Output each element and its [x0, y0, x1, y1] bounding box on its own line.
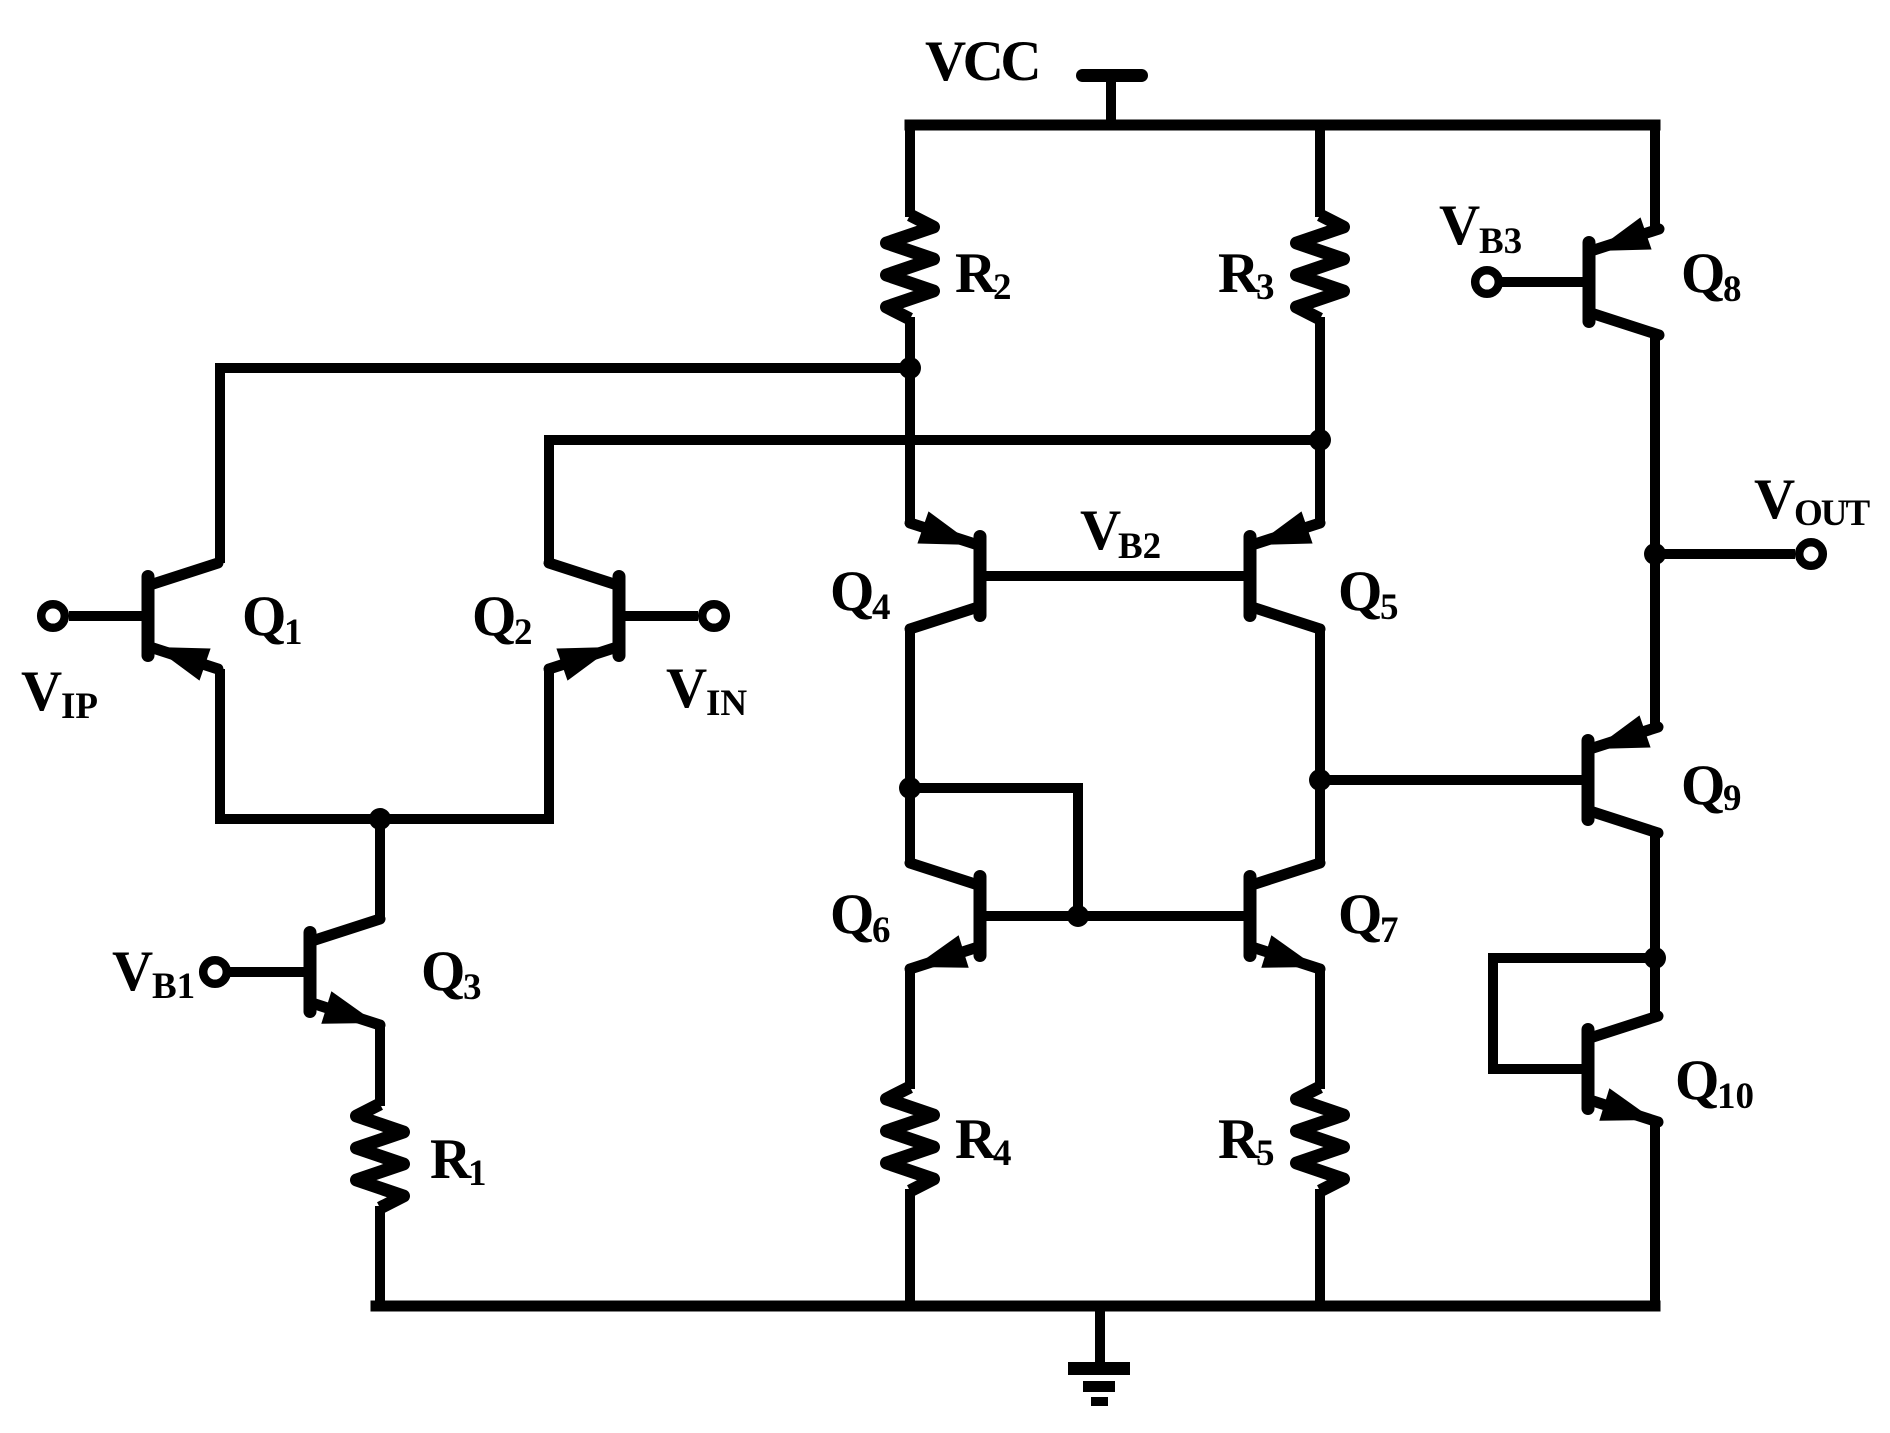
svg-text:B3: B3	[1479, 221, 1522, 262]
wire Q6 emitter to R4	[905, 969, 915, 1089]
svg-text:3: 3	[1256, 267, 1275, 308]
wire Q9 collector to node H	[1650, 833, 1660, 958]
wire R1 to ground rail	[375, 1206, 385, 1312]
svg-text:IP: IP	[61, 686, 98, 727]
wire VCC rail to Q8 emitter	[1650, 125, 1660, 229]
node F (Q5-Q7-Q9)	[1309, 769, 1331, 791]
wire node A to Q4 emitter	[905, 368, 915, 523]
svg-text:1: 1	[284, 612, 303, 653]
input terminal VIN	[702, 604, 726, 628]
svg-text:OUT: OUT	[1794, 493, 1871, 534]
resistor R1	[357, 1104, 404, 1208]
wire common emitter tail	[215, 814, 554, 824]
wire Q10 emitter to ground rail	[1650, 1122, 1660, 1312]
VCC power rail (top)	[905, 120, 1661, 131]
svg-text:Q: Q	[1338, 560, 1382, 623]
wire Q7 collector riser	[1315, 780, 1325, 863]
wire R3 to node B	[1315, 317, 1325, 435]
resistor R5	[1297, 1087, 1344, 1191]
transistor Q3 (NPN)	[304, 926, 317, 1018]
svg-text:Q: Q	[1681, 754, 1725, 817]
wire to VOUT terminal	[1655, 549, 1795, 559]
wire node D to base drop	[910, 783, 1083, 793]
wire VCC rail to R3	[1315, 125, 1325, 217]
svg-text:Q: Q	[472, 585, 516, 648]
svg-text:3: 3	[463, 967, 482, 1008]
resistor R3	[1297, 215, 1344, 319]
wire Q10 base loop top	[1488, 953, 1655, 963]
transistor Q7 (NPN)	[1244, 870, 1257, 962]
terminal VB3	[1475, 270, 1499, 294]
transistor Q1 (PNP)	[142, 570, 155, 662]
svg-text:Q: Q	[1338, 883, 1382, 946]
node D (Q4-Q6)	[899, 777, 921, 799]
node B (R3 bottom)	[1309, 429, 1331, 451]
svg-text:8: 8	[1723, 269, 1742, 310]
svg-text:1: 1	[468, 1153, 487, 1194]
svg-text:B1: B1	[152, 966, 195, 1007]
transistor Q10 (NPN)	[1582, 1023, 1595, 1115]
transistor Q5 (PNP)	[1244, 530, 1257, 622]
wire R2 to node A	[905, 317, 915, 373]
svg-text:V: V	[112, 940, 153, 1003]
svg-text:R: R	[430, 1128, 472, 1191]
wire Q8 collector to VOUT node	[1650, 335, 1660, 554]
wire Q5 collector to node F	[1315, 629, 1325, 780]
wire Q3 emitter to R1	[375, 1025, 385, 1106]
svg-text:7: 7	[1380, 910, 1399, 951]
VCC supply symbol	[1076, 69, 1148, 82]
svg-text:5: 5	[1256, 1133, 1275, 1174]
wire R4 to ground rail	[905, 1189, 915, 1312]
node G (VOUT)	[1644, 543, 1666, 565]
wire Q10 base loop bottom	[1488, 1064, 1582, 1074]
svg-text:2: 2	[993, 267, 1012, 308]
ground symbol	[1095, 1306, 1105, 1362]
wire Q7 emitter to R5	[1315, 969, 1325, 1089]
wire node B to Q2 collector	[544, 435, 1320, 445]
input terminal VIP	[41, 604, 65, 628]
wire Q10 base loop left	[1488, 958, 1498, 1074]
resistor R2	[887, 215, 934, 319]
svg-text:VCC: VCC	[925, 30, 1038, 93]
wire R5 to ground rail	[1315, 1189, 1325, 1312]
wire base drop to node E	[1073, 788, 1083, 916]
transistor Q8 (PNP)	[1583, 236, 1596, 328]
ground rail (bottom)	[371, 1301, 1661, 1312]
svg-text:V: V	[21, 660, 62, 723]
svg-text:R: R	[1218, 1108, 1260, 1171]
svg-text:V: V	[1439, 194, 1480, 257]
svg-text:9: 9	[1723, 778, 1742, 819]
wire node B to Q5 emitter	[1315, 440, 1325, 523]
output terminal VOUT	[1799, 542, 1823, 566]
node H (Q9-Q10)	[1644, 947, 1666, 969]
node C (emitter tail)	[369, 808, 391, 830]
wire node A to Q1 collector	[215, 363, 910, 373]
svg-text:6: 6	[872, 910, 891, 951]
wire VOUT node to Q9 emitter	[1650, 554, 1660, 727]
svg-text:4: 4	[993, 1133, 1012, 1174]
wire Q1 emitter riser	[215, 669, 225, 819]
svg-text:V: V	[1754, 468, 1795, 531]
transistor Q6 (NPN)	[974, 870, 987, 962]
svg-text:V: V	[666, 657, 707, 720]
wire Q2 collector riser	[544, 440, 554, 563]
svg-text:Q: Q	[242, 585, 286, 648]
wire node C to Q3 collector	[375, 819, 385, 919]
svg-text:R: R	[955, 1108, 997, 1171]
svg-text:R: R	[1218, 242, 1260, 305]
wire node H to Q10 collector	[1650, 958, 1660, 1016]
wire Q2 emitter riser	[544, 669, 554, 819]
wire Q6 collector riser	[905, 788, 915, 863]
svg-text:Q: Q	[1681, 242, 1725, 305]
wire Q1 collector riser	[215, 368, 225, 563]
wire node F to Q9 base	[1320, 775, 1582, 785]
svg-text:IN: IN	[706, 683, 747, 724]
transistor Q4 (PNP)	[974, 530, 987, 622]
svg-text:R: R	[955, 242, 997, 305]
wire VCC rail to R2	[905, 125, 915, 217]
svg-text:B2: B2	[1118, 526, 1161, 567]
svg-text:V: V	[1080, 499, 1121, 562]
terminal VB1	[203, 960, 227, 984]
transistor Q9 (PNP)	[1582, 734, 1595, 826]
node E (base link)	[1067, 905, 1089, 927]
svg-text:5: 5	[1380, 587, 1399, 628]
svg-text:Q: Q	[1675, 1049, 1719, 1112]
svg-text:4: 4	[872, 587, 891, 628]
node A (R2 bottom)	[899, 357, 921, 379]
resistor R4	[887, 1087, 934, 1191]
wire VB2 (Q4 base to Q5 base)	[987, 571, 1244, 581]
wire Q6-Q7 base link	[987, 911, 1244, 921]
svg-text:2: 2	[514, 612, 533, 653]
svg-text:Q: Q	[830, 560, 874, 623]
transistor Q2 (PNP)	[613, 570, 626, 662]
svg-text:Q: Q	[421, 940, 465, 1003]
wire Q4 collector to node D	[905, 629, 915, 788]
svg-text:Q: Q	[830, 883, 874, 946]
svg-text:10: 10	[1717, 1076, 1754, 1117]
